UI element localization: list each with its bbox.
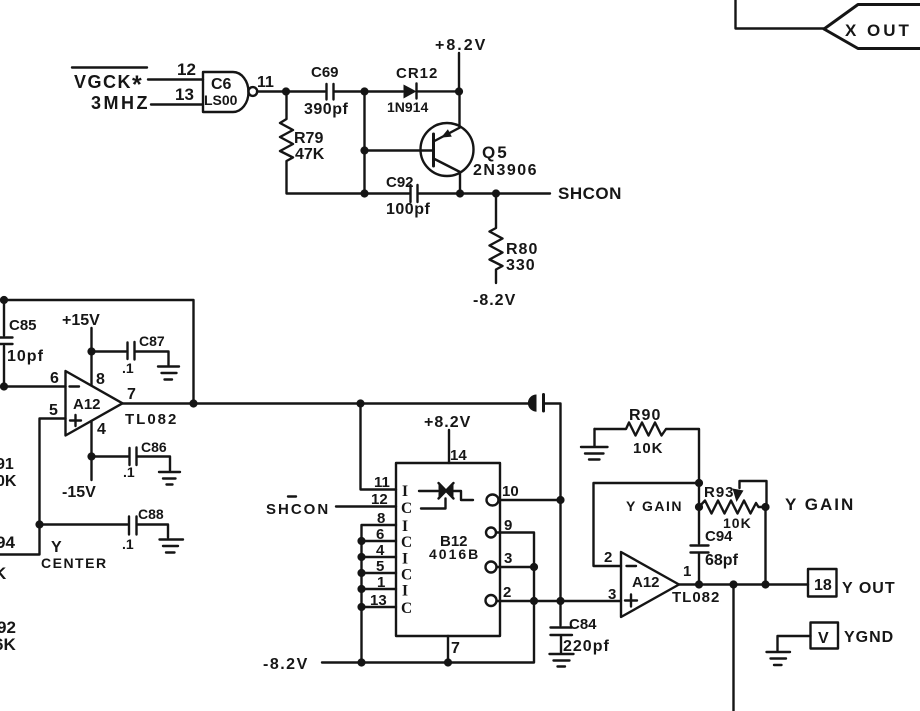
wiper of R93 [733, 481, 767, 507]
wire CR12 to +8.2V node [417, 90, 460, 92]
wire gate output to node [257, 90, 286, 92]
svg-text:13: 13 [370, 592, 387, 609]
svg-text:220pf: 220pf [563, 638, 610, 655]
wire SHCON to pin 12 [336, 505, 396, 507]
wire C88 to ground [138, 525, 169, 538]
svg-text:94: 94 [0, 533, 15, 552]
wire VGCK* to gate pin 12 [148, 78, 203, 80]
svg-text:13: 13 [175, 85, 194, 104]
pin 10 circle [487, 495, 499, 506]
svg-text:6K: 6K [0, 635, 16, 654]
power +8.2V pin 14 [424, 414, 471, 464]
wire collector node to SHCON [460, 192, 550, 194]
junction C94 output [695, 580, 703, 588]
NAND gate C6 LS00 [203, 72, 257, 112]
svg-text:91: 91 [0, 456, 14, 473]
svg-text:100pf: 100pf [386, 201, 430, 218]
svg-text:Y OUT: Y OUT [842, 580, 896, 597]
wire bottom node to C92 [365, 192, 410, 194]
svg-text:6: 6 [376, 526, 384, 543]
ground [159, 472, 180, 485]
wire +15V node to C87 [92, 350, 127, 352]
junction bus pin 5 [357, 569, 365, 577]
svg-text:LS00: LS00 [204, 92, 238, 108]
svg-text:-8.2V: -8.2V [263, 656, 309, 673]
svg-text:Y GAIN: Y GAIN [626, 498, 683, 514]
svg-text:7: 7 [451, 640, 460, 657]
svg-text:Q5: Q5 [482, 143, 509, 162]
junction minus input node [0, 382, 8, 390]
svg-text:YGND: YGND [844, 629, 894, 646]
svg-text:K: K [0, 564, 7, 583]
svg-text:A12: A12 [73, 396, 101, 413]
svg-text:C: C [401, 500, 412, 517]
svg-text:C86: C86 [141, 439, 167, 455]
pin 2 circle [486, 595, 497, 606]
junction plus input node [556, 597, 564, 605]
svg-text:47K: 47K [295, 146, 325, 163]
svg-text:C69: C69 [311, 64, 339, 81]
junction gate output node [282, 87, 290, 95]
svg-text:3: 3 [504, 550, 512, 567]
resistor R91 partial label [0, 456, 17, 490]
junction bus pin 13 [357, 603, 365, 611]
svg-text:390pf: 390pf [304, 101, 348, 118]
switch symbol inside B12 [419, 483, 473, 509]
svg-text:1: 1 [683, 563, 691, 580]
wire YGND to ground [778, 636, 811, 651]
wire pin 11 feed [361, 404, 397, 490]
svg-text:C85: C85 [9, 317, 37, 334]
wire vertical node to base/bottom [363, 92, 365, 194]
svg-text:2N3906: 2N3906 [473, 162, 538, 179]
svg-text:+8.2V: +8.2V [424, 414, 471, 431]
svg-text:68pf: 68pf [705, 552, 739, 569]
svg-text:R90: R90 [629, 407, 661, 424]
junction [360, 87, 368, 95]
wire node to C69 [286, 90, 325, 92]
svg-text:TL082: TL082 [125, 411, 178, 428]
wire base to Q5 [365, 149, 434, 151]
capacitor series on output rail [528, 395, 544, 412]
svg-text:14: 14 [450, 447, 467, 464]
svg-text:11: 11 [374, 474, 390, 491]
junction pin 10 node [556, 496, 564, 504]
wire op-amp output rail [123, 402, 529, 404]
capacitor C87 .1 [122, 333, 165, 376]
capacitor C88 .1 [122, 506, 164, 552]
wire to bottom edge [732, 585, 734, 711]
junction output rail to pin 11 [356, 399, 364, 407]
svg-text:2: 2 [503, 584, 511, 601]
svg-text:4: 4 [97, 421, 106, 438]
connector Y GND pin V [811, 623, 895, 649]
wire 3MHZ to gate pin 13 [151, 103, 203, 105]
svg-text:12: 12 [177, 60, 196, 79]
svg-text:C94: C94 [705, 528, 733, 545]
wire pin 8 [90, 352, 92, 386]
svg-text:10pf: 10pf [7, 348, 44, 365]
junction Y CENTER node [35, 520, 43, 528]
wire feedback loop [594, 483, 700, 566]
diode CR12 1N914 [387, 65, 438, 115]
wire Y CENTER from left edge [0, 525, 40, 555]
svg-text:TL082: TL082 [672, 589, 720, 606]
svg-text:VGCK: VGCK [74, 72, 132, 92]
ground [581, 429, 608, 460]
wire node to CR12 [365, 90, 404, 92]
resistor R79 47K [280, 94, 365, 194]
junction base node [360, 146, 368, 154]
wire minus node to op-amp [4, 385, 66, 387]
junction bus pin 1 [357, 585, 365, 593]
ground [158, 367, 179, 380]
wire pin 2 to op-amp plus input [497, 600, 622, 602]
resistor R90 10K [595, 407, 700, 483]
wire cap to pin10 node vertical [545, 404, 561, 602]
svg-text:C6: C6 [211, 76, 232, 93]
wire left pin bus [362, 525, 397, 663]
op-amp U A12 TL082 (Y) [66, 371, 123, 436]
pin 9 circle [486, 528, 496, 538]
svg-text:+8.2V: +8.2V [435, 37, 487, 54]
wire pin 7 [447, 636, 449, 663]
svg-text:C: C [401, 600, 412, 617]
svg-text:SHCON: SHCON [558, 184, 622, 203]
wire pins 9/3/2 bus to -8.2V rail [322, 533, 534, 663]
junction feedback to output [189, 399, 197, 407]
svg-text:C: C [401, 567, 412, 584]
svg-text:-8.2V: -8.2V [473, 292, 516, 309]
capacitor C84 220pf [551, 601, 610, 655]
junction bus pin 6 [357, 537, 365, 545]
svg-text:5: 5 [49, 402, 58, 419]
svg-text:10: 10 [502, 483, 519, 500]
svg-text:12: 12 [371, 491, 388, 508]
capacitor C92 100pf [386, 174, 430, 218]
svg-text:2: 2 [604, 549, 612, 566]
junction +15V node [87, 347, 95, 355]
junction pin 7 to rail [444, 658, 452, 666]
svg-text:-15V: -15V [62, 484, 96, 501]
wire from top edge to X OUT [736, 0, 825, 29]
svg-text:0K: 0K [0, 473, 17, 490]
svg-text:CR12: CR12 [396, 65, 438, 82]
junction output to lower section [729, 580, 737, 588]
svg-text:I: I [402, 583, 408, 600]
junction R93 right node [761, 503, 769, 511]
svg-text:.1: .1 [122, 360, 134, 376]
svg-text:R93: R93 [704, 484, 735, 501]
wire C92 to collector node [419, 192, 461, 194]
wire C69 to node [335, 90, 365, 92]
pin 3 circle [486, 562, 497, 573]
svg-text:C: C [401, 534, 412, 551]
svg-text:C84: C84 [569, 616, 597, 633]
wire -15V node to C86 [92, 455, 129, 457]
svg-text:C92: C92 [386, 174, 414, 191]
svg-text:R79: R79 [294, 130, 323, 147]
svg-text:4: 4 [376, 542, 385, 559]
svg-text:1N914: 1N914 [387, 99, 428, 115]
power +15V [62, 312, 100, 352]
svg-text:C88: C88 [138, 506, 164, 522]
svg-text:330: 330 [506, 257, 536, 274]
svg-text:.1: .1 [122, 536, 134, 552]
svg-text:1: 1 [377, 574, 385, 591]
svg-text:C87: C87 [139, 333, 165, 349]
wire output Y [679, 583, 808, 585]
svg-text:3: 3 [608, 586, 616, 603]
capacitor C94 68pf [691, 507, 739, 585]
svg-text:V: V [818, 630, 829, 647]
svg-text:A12: A12 [632, 574, 660, 591]
wire node to C88 [40, 523, 128, 525]
capacitor C85 10pf [0, 300, 44, 387]
junction +8.2V node [455, 87, 463, 95]
wire C87 to ground [136, 352, 169, 366]
node SHCON input label [266, 497, 330, 519]
pin letters I/C column [401, 483, 412, 617]
svg-text:4016B: 4016B [429, 546, 480, 562]
transistor Q5 2N3906 [421, 92, 539, 194]
svg-text:18: 18 [814, 577, 832, 594]
junction bus pin 4 [357, 553, 365, 561]
connector Y OUT pin 18 [808, 569, 896, 597]
junction left edge top rail [0, 296, 8, 304]
svg-text:+15V: +15V [62, 312, 100, 329]
svg-text:R80: R80 [506, 241, 538, 258]
svg-text:I: I [402, 518, 408, 535]
wire R90 node to R93 node [698, 483, 700, 507]
resistor R80 330 [490, 194, 539, 284]
power +8.2V [435, 37, 487, 92]
node VGCK* input label [72, 68, 147, 100]
svg-text:10K: 10K [633, 440, 664, 457]
capacitor C86 .1 [123, 439, 167, 480]
svg-text:8: 8 [377, 510, 385, 527]
svg-text:8: 8 [96, 371, 105, 388]
wire plus input [40, 419, 66, 525]
svg-text:7: 7 [127, 386, 136, 403]
wire pin 3 stub [497, 566, 535, 568]
node Y CENTER label [41, 539, 108, 571]
junction collector node [456, 189, 464, 197]
svg-text:.1: .1 [123, 464, 135, 480]
power -15V [62, 457, 96, 502]
wire pin 4 [90, 421, 92, 457]
capacitor C69 390pf [304, 64, 348, 118]
svg-text:SHCON: SHCON [266, 501, 330, 518]
ground [767, 652, 791, 665]
svg-text:6: 6 [50, 370, 59, 387]
wire C86 to ground [138, 457, 171, 471]
connector X OUT flag [824, 5, 920, 49]
svg-text:X OUT: X OUT [845, 21, 912, 40]
junction R80 node [492, 189, 500, 197]
junction bus pin 2 [530, 597, 538, 605]
wire pin 10 to node [499, 499, 561, 501]
ground [160, 540, 184, 553]
svg-text:11: 11 [257, 74, 274, 91]
resistor R92 partial label [0, 618, 16, 654]
junction bus pin 3 [530, 563, 538, 571]
junction R93 left node [695, 503, 703, 511]
svg-text:I: I [402, 483, 408, 500]
junction feedback node [695, 479, 703, 487]
svg-text:Y GAIN: Y GAIN [785, 495, 855, 514]
svg-text:Y: Y [51, 539, 62, 556]
junction -15V node [87, 452, 95, 460]
svg-text:5: 5 [376, 558, 384, 575]
wire R93 right to output [764, 507, 766, 585]
junction R93 output [761, 580, 769, 588]
svg-text:I: I [402, 551, 408, 568]
resistor R94 partial label [0, 533, 15, 583]
wire feedback top rail [0, 300, 194, 404]
junction bottom node [360, 189, 368, 197]
op-amp U A12 TL082 (Y out) [621, 552, 679, 617]
ground [550, 654, 574, 667]
potentiometer R93 10K [699, 484, 766, 531]
junction bus to -8.2V rail [357, 658, 365, 666]
svg-text:3MHZ: 3MHZ [91, 93, 150, 113]
svg-text:CENTER: CENTER [41, 555, 108, 571]
analog switch B12 4016B [396, 463, 500, 636]
